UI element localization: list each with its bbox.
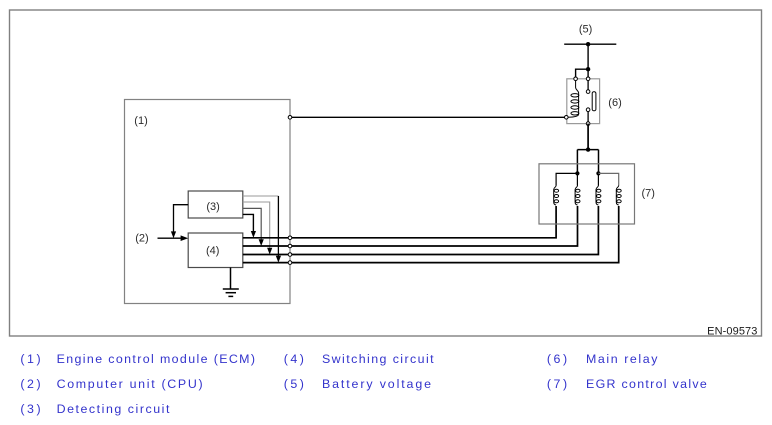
relay switch blade	[592, 92, 596, 111]
relay terminal pin output	[586, 122, 590, 126]
svg-text:(2): (2)	[135, 233, 148, 245]
wire branch left into EGR valve	[576, 150, 578, 174]
svg-text:(5): (5)	[579, 24, 592, 36]
svg-text:Battery voltage: Battery voltage	[322, 377, 431, 391]
driver wire 2 from box4 to EGR coil L2	[243, 206, 578, 246]
svg-text:(5): (5)	[284, 377, 304, 391]
svg-text:(7): (7)	[642, 187, 655, 199]
svg-text:(3): (3)	[206, 201, 219, 213]
wire branch right into EGR valve	[598, 150, 600, 174]
diagram frame	[10, 10, 762, 336]
relay switch contact wire bottom	[587, 110, 589, 124]
relay contact pin lower	[586, 108, 590, 112]
wire D from box3 right to driver line 1	[243, 214, 256, 237]
svg-text:Engine control module (ECM): Engine control module (ECM)	[57, 352, 255, 366]
wire junction to coil L2	[576, 173, 578, 185]
relay coil winding	[568, 81, 579, 118]
main relay K1 (6) body	[567, 79, 600, 124]
svg-text:(6): (6)	[608, 97, 621, 109]
EGR coil L2	[575, 186, 580, 206]
wire from CPU (2) input arrow into box 4	[158, 235, 189, 241]
svg-text:Detecting circuit: Detecting circuit	[57, 402, 170, 416]
EGR coil L4	[616, 186, 621, 206]
wire B from box3 right to driver line 3	[243, 202, 272, 255]
ECM edge terminal pin for relay coil wire	[288, 116, 292, 120]
detecting circuit box (3)	[188, 191, 243, 218]
node: relay feed junction	[586, 67, 590, 71]
wire A from box3 right (top) down to driver line 4	[243, 196, 281, 263]
ECM edge terminal pin on driver wire 4	[288, 261, 292, 265]
node: coil pair junction left	[575, 171, 579, 175]
svg-text:Switching circuit: Switching circuit	[322, 352, 434, 366]
ECM box U1 (1)	[125, 100, 291, 304]
node: coil pair junction right	[596, 171, 600, 175]
wire branch to relay coil terminal	[576, 69, 589, 79]
relay terminal pin coil return	[565, 116, 569, 120]
svg-text:(1): (1)	[134, 115, 147, 127]
ECM edge terminal pin on driver wire 2	[288, 244, 292, 248]
wire from ECM to relay coil	[290, 116, 566, 118]
svg-text:Main relay: Main relay	[586, 352, 658, 366]
svg-text:(3): (3)	[20, 402, 40, 416]
EGR control valve body (7)	[539, 164, 635, 224]
svg-text:(4): (4)	[206, 245, 219, 257]
wire C from box3 right to driver line 2	[243, 208, 264, 246]
node: EGR feed junction	[586, 147, 590, 151]
relay terminal pin top-right	[586, 77, 590, 81]
EGR coil L3	[596, 186, 601, 206]
EGR coil L1	[554, 186, 559, 206]
wire junction to coil L1	[556, 173, 577, 185]
svg-text:(7): (7)	[547, 377, 567, 391]
svg-text:(4): (4)	[284, 352, 304, 366]
svg-text:(1): (1)	[20, 352, 40, 366]
wire branch bar above EGR valve	[577, 149, 598, 151]
driver wire 4 from box4 to EGR coil L4	[243, 206, 619, 263]
svg-text:Computer unit (CPU): Computer unit (CPU)	[57, 377, 203, 391]
svg-text:EN-09573: EN-09573	[707, 325, 757, 337]
relay terminal pin top-left	[574, 77, 578, 81]
wire from battery to relay	[587, 44, 589, 79]
relay contact pin upper	[586, 90, 590, 94]
ground symbol below box 4	[223, 268, 239, 297]
ECM edge terminal pin on driver wire 3	[288, 253, 292, 257]
svg-text:(6): (6)	[547, 352, 567, 366]
wire from box 3 left to (2) line with arrow	[171, 205, 188, 239]
driver wire 1 from box4 to EGR coil L1	[243, 206, 556, 238]
wire junction to coil L4	[598, 173, 618, 185]
driver wire 3 from box4 to EGR coil L3	[243, 206, 599, 255]
ECM edge terminal pin on driver wire 1	[288, 236, 292, 240]
switching circuit box (4)	[188, 233, 243, 268]
svg-text:EGR control valve: EGR control valve	[586, 377, 707, 391]
svg-text:(2): (2)	[20, 377, 40, 391]
node: battery tap junction	[586, 42, 590, 46]
relay switch contact wire top	[587, 79, 589, 92]
wire from relay output to EGR valve	[587, 124, 589, 150]
battery voltage bus bar	[564, 43, 616, 45]
wire junction to coil L3	[597, 173, 599, 185]
